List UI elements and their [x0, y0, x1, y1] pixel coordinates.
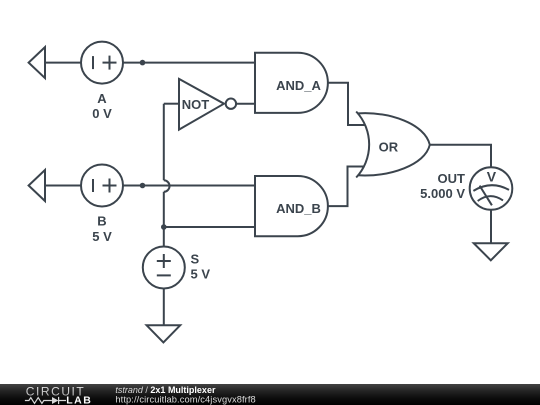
wire hop — [164, 180, 170, 192]
wire — [163, 104, 165, 181]
input flag A — [29, 47, 45, 78]
svg-text:AND_A: AND_A — [276, 78, 321, 93]
and-gate AND_B — [255, 176, 328, 236]
input flag B — [29, 170, 45, 201]
svg-text:OR: OR — [379, 140, 399, 155]
wire — [164, 226, 255, 228]
wire — [163, 192, 165, 247]
wire — [328, 83, 365, 125]
svg-text:OUT: OUT — [438, 171, 466, 186]
svg-text:V: V — [487, 168, 497, 184]
svg-text:0 V: 0 V — [92, 106, 112, 121]
junction — [140, 183, 146, 189]
wire — [328, 167, 365, 207]
wire — [164, 103, 179, 105]
wire — [490, 210, 492, 243]
logo CircuitLab — [25, 384, 92, 405]
svg-text:B: B — [97, 214, 106, 229]
svg-text:A: A — [97, 91, 107, 106]
footer bar — [0, 384, 540, 405]
svg-text:AND_B: AND_B — [276, 201, 321, 216]
wire — [123, 185, 255, 187]
wire — [123, 62, 255, 64]
svg-text:5.000 V: 5.000 V — [420, 186, 465, 201]
junction — [140, 60, 146, 66]
voltage source V_B — [81, 165, 123, 207]
not-gate U_NOT — [179, 79, 236, 130]
wire — [45, 185, 81, 187]
svg-text:http://circuitlab.com/c4jsvgvx: http://circuitlab.com/c4jsvgvx8frf8 — [115, 395, 255, 405]
voltmeter OUT — [470, 167, 513, 210]
svg-text:LAB: LAB — [66, 394, 92, 405]
voltage source V_A — [81, 42, 123, 84]
wire — [430, 145, 491, 167]
and-gate AND_A — [255, 53, 328, 113]
wire — [45, 62, 81, 64]
wire — [236, 103, 255, 105]
svg-text:S: S — [191, 252, 200, 267]
ground — [147, 325, 181, 342]
ground — [474, 243, 508, 260]
wire — [163, 289, 165, 326]
svg-text:NOT: NOT — [182, 97, 210, 112]
svg-text:5 V: 5 V — [191, 267, 211, 282]
voltage source V_S — [143, 247, 185, 289]
junction — [161, 224, 167, 230]
svg-text:5 V: 5 V — [92, 229, 112, 244]
or-gate OR — [356, 112, 430, 178]
